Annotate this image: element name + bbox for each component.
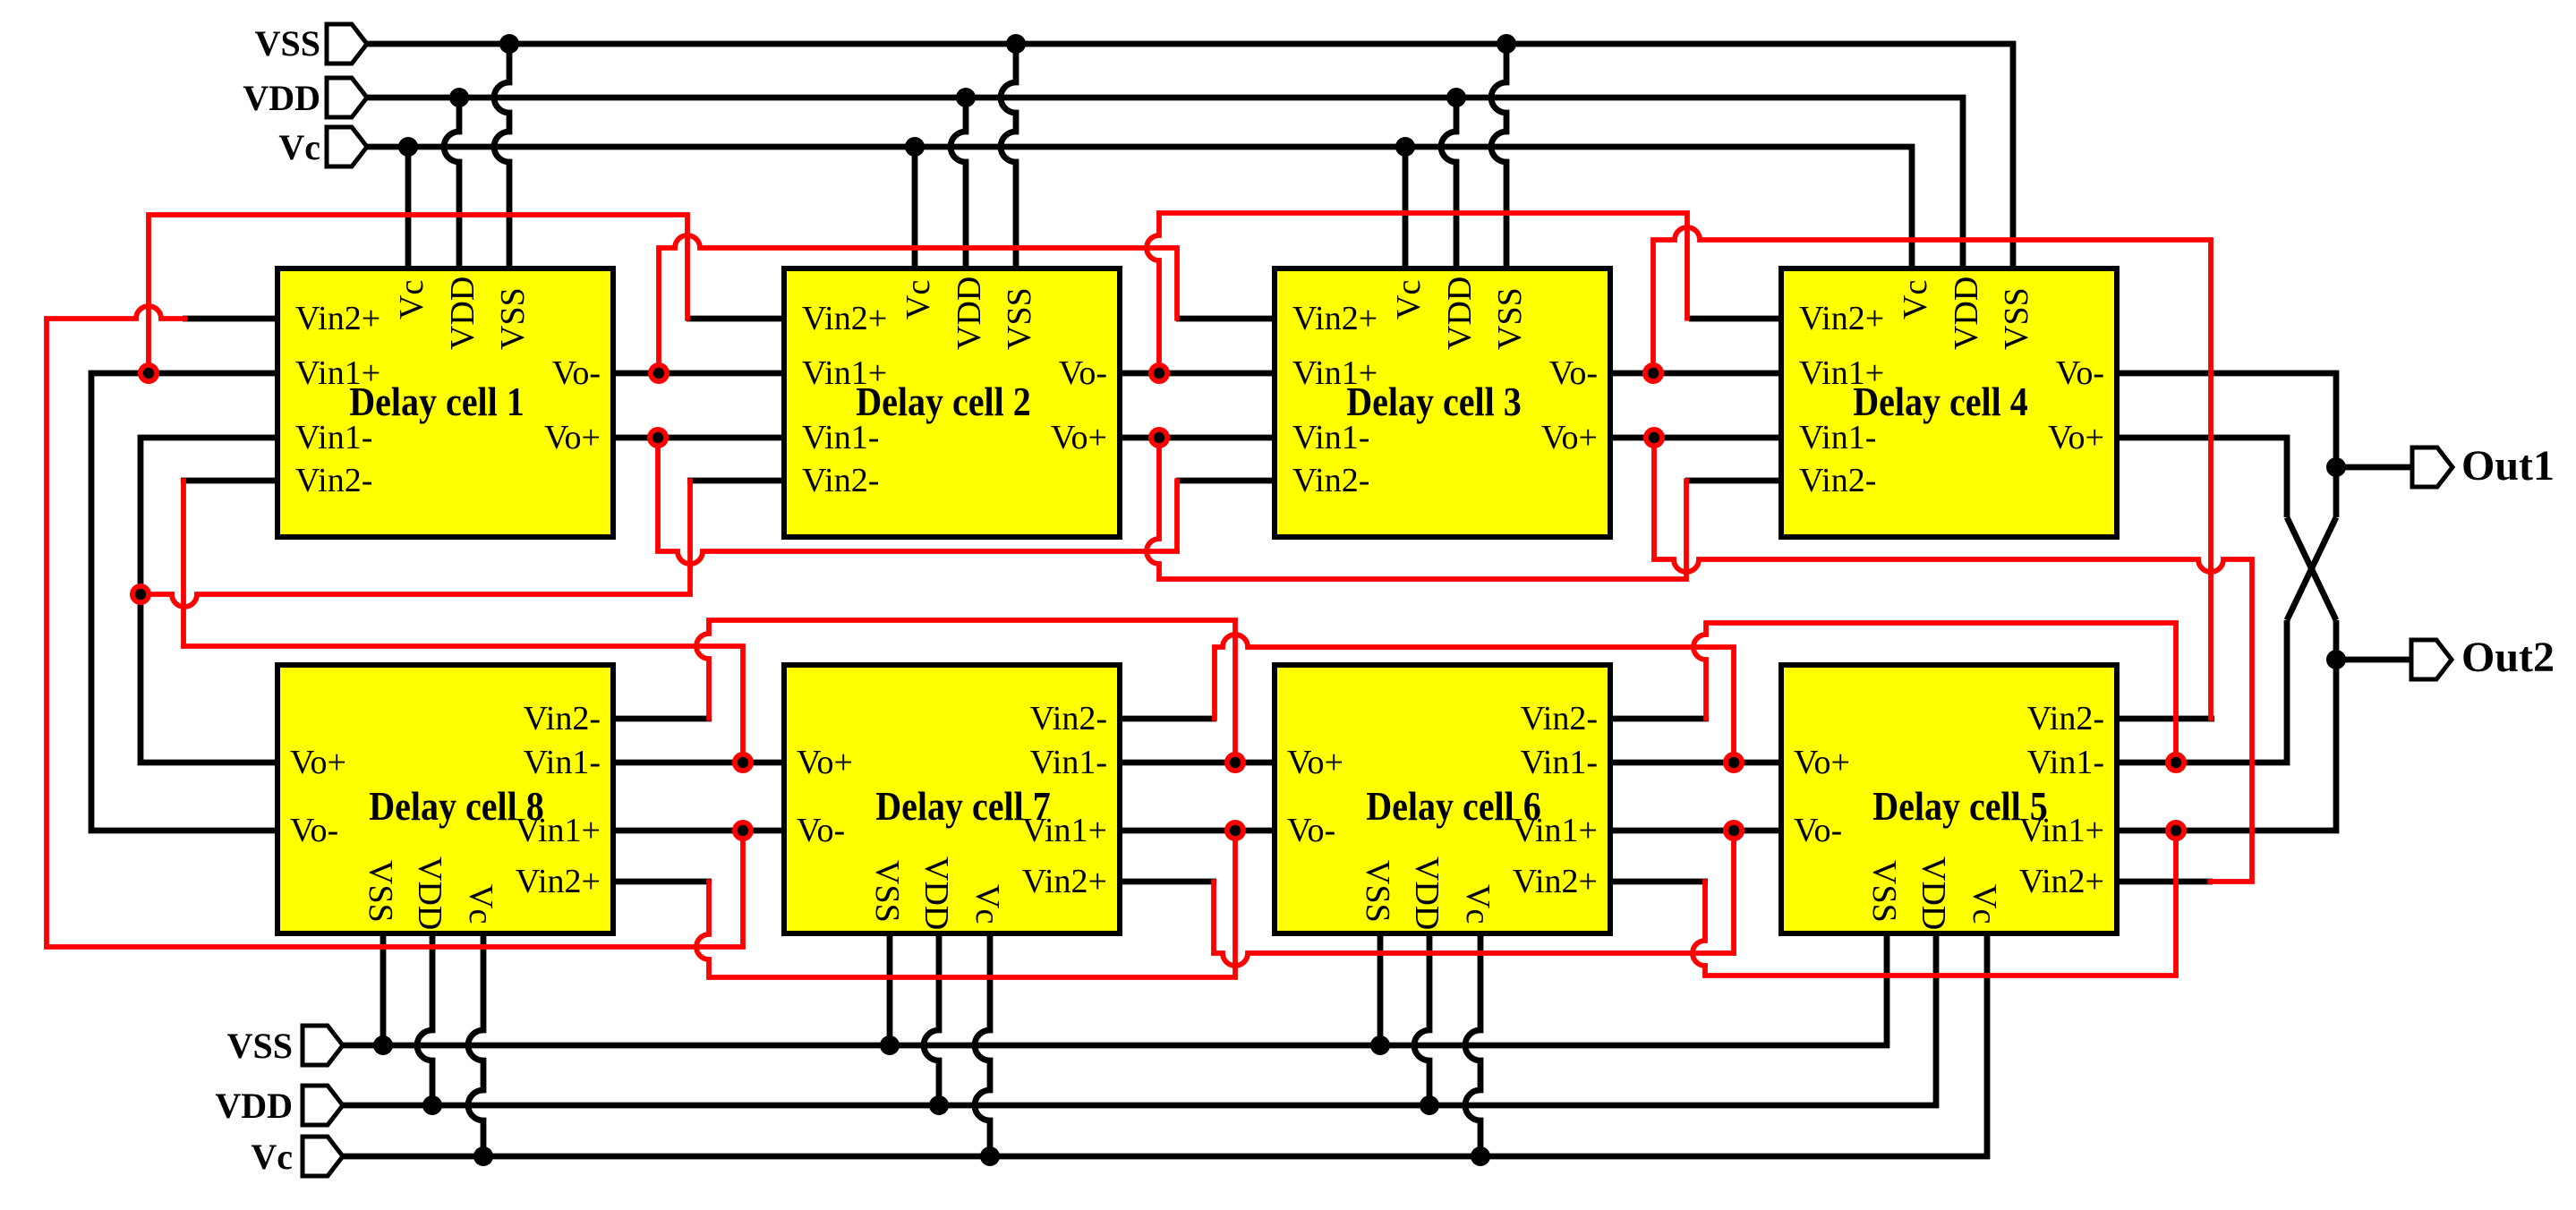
- svg-text:Delay cell 5: Delay cell 5: [1872, 785, 2048, 830]
- svg-text:Vc: Vc: [278, 127, 320, 167]
- stub cell1.Vin2+: [183, 316, 280, 322]
- wire VDD riser from Delay cell 7 + junction: [924, 931, 939, 1108]
- wire VDD drop to Delay cell 2 + junction: [951, 95, 966, 271]
- svg-text:Vo+: Vo+: [544, 419, 601, 456]
- svg-text:Vo-: Vo-: [2056, 354, 2104, 392]
- delay cell U3 (Delay cell 3): [1275, 268, 1610, 537]
- svg-text:VSS: VSS: [868, 860, 906, 923]
- red wire cell6.Vo+ net to cell8.Vin2-: [696, 618, 709, 720]
- node red junction cell5.Vo+: [1723, 752, 1744, 773]
- svg-text:VDD: VDD: [1441, 277, 1479, 350]
- wire cell7.Vo+ to cell8.Vin1-: [610, 760, 787, 766]
- svg-text:Vc: Vc: [251, 1137, 293, 1177]
- node red junction on cell8.Vin1+ line: [732, 820, 754, 841]
- svg-text:Vin1-: Vin1-: [524, 744, 601, 781]
- wire VDD drop to Delay cell 3 + junction: [1441, 95, 1456, 271]
- svg-text:Out2: Out2: [2461, 634, 2555, 681]
- node red junction cell6.Vo+: [1224, 752, 1246, 773]
- wire Vc riser from Delay cell 5: [1984, 931, 1991, 1159]
- stub cell3.Vin2+: [1176, 316, 1277, 322]
- wire VSS drop to Delay cell 3 + junction: [1491, 41, 1506, 271]
- stub cell1.Vin2-: [181, 478, 280, 484]
- svg-text:Vo+: Vo+: [1051, 419, 1107, 456]
- svg-text:Vo+: Vo+: [1287, 744, 1343, 781]
- node red junction on cell5.Vin1- line: [2165, 752, 2187, 773]
- svg-text:VSS: VSS: [1001, 287, 1038, 350]
- wire cell5.Vo+ to cell6.Vin1-: [1608, 760, 1784, 766]
- wire cell1.Vo+ to cell2.Vin1-: [610, 435, 787, 441]
- wire VSS riser from Delay cell 8 + junction: [380, 931, 387, 1048]
- svg-text:Vc: Vc: [462, 884, 499, 924]
- svg-text:VSS: VSS: [362, 860, 399, 923]
- svg-text:Delay cell 6: Delay cell 6: [1366, 785, 1541, 830]
- stub cell3.Vin2-: [1176, 478, 1277, 484]
- wire VSS drop to Delay cell 1 + junction: [494, 41, 509, 271]
- svg-text:VDD: VDD: [1408, 856, 1446, 930]
- svg-text:VDD: VDD: [951, 277, 988, 350]
- wire cell4.Vo+ to X-cross upper: [2117, 438, 2287, 517]
- wire cell6.Vo- to cell7.Vin1+: [1117, 828, 1277, 834]
- power rail VDD (top): [363, 95, 1966, 101]
- svg-text:Vin1-: Vin1-: [1030, 744, 1107, 781]
- wire Vc drop to Delay cell 4: [1909, 144, 1915, 271]
- svg-text:Delay cell 7: Delay cell 7: [875, 785, 1051, 830]
- svg-text:Vo+: Vo+: [290, 744, 346, 781]
- svg-text:VDD: VDD: [444, 277, 482, 350]
- power rail VSS (bottom): [340, 1043, 1889, 1049]
- svg-text:Vo-: Vo-: [1287, 812, 1335, 849]
- port VDD (bottom-left): [303, 1086, 343, 1125]
- node red junction on cell1.Vin1+ line: [138, 362, 159, 384]
- red wire cell6.Vo- net to cell8.Vin2+: [696, 879, 709, 979]
- svg-text:VDD: VDD: [243, 78, 320, 118]
- svg-text:Vo+: Vo+: [797, 744, 853, 781]
- wire cell8.Vo+ to cell1.Vin1-: [141, 438, 277, 763]
- svg-text:Vc: Vc: [968, 884, 1006, 924]
- node red junction on cell5.Vin1+ line: [2165, 820, 2187, 841]
- port Out2: [2411, 640, 2452, 679]
- svg-text:Vin2+: Vin2+: [295, 300, 380, 337]
- svg-text:Vo+: Vo+: [1541, 419, 1598, 456]
- wire cell3.Vo- to cell4.Vin1+: [1608, 371, 1784, 377]
- svg-text:Vo+: Vo+: [2048, 419, 2104, 456]
- wire Vc riser from Delay cell 8 + junction: [468, 931, 483, 1159]
- delay cell U7 (Delay cell 7): [784, 665, 1120, 933]
- red wire cell5.Vin1- net to cell6.Vin2-: [1693, 620, 1706, 720]
- delay cell U5 (Delay cell 5): [1781, 665, 2117, 933]
- svg-text:Vo-: Vo-: [797, 812, 845, 849]
- wire cell6.Vo+ to cell7.Vin1-: [1117, 760, 1277, 766]
- wire X-cross to cell5.Vin1-: [2117, 620, 2287, 763]
- wire cell4.Vo- to Out1 / X-cross upper: [2117, 373, 2336, 517]
- svg-text:Vin2-: Vin2-: [524, 700, 601, 737]
- node red junction cell1.Vo-: [648, 362, 670, 384]
- svg-text:Vo-: Vo-: [290, 812, 338, 849]
- wire VDD drop to Delay cell 1 + junction: [444, 95, 459, 271]
- node red junction on cell8.Vin1- line: [732, 752, 754, 773]
- svg-text:Vc: Vc: [393, 280, 431, 320]
- wire cell8.Vo- to cell1.Vin1+: [91, 373, 277, 831]
- svg-text:Delay cell 2: Delay cell 2: [856, 380, 1031, 425]
- svg-text:Vc: Vc: [1897, 280, 1934, 320]
- svg-text:Delay cell 3: Delay cell 3: [1346, 380, 1522, 425]
- svg-text:Vo-: Vo-: [1059, 354, 1107, 392]
- node red junction cell6.Vo-: [1224, 820, 1246, 841]
- wire X-cross to Out2 and cell5.Vin1+: [2117, 620, 2336, 831]
- svg-text:VDD: VDD: [411, 856, 448, 930]
- svg-text:Vin2-: Vin2-: [1521, 700, 1598, 737]
- port Vc (bottom-left): [303, 1137, 343, 1176]
- power rail VSS (top): [363, 41, 2016, 47]
- svg-text:Vin2+: Vin2+: [1513, 863, 1598, 900]
- wire Vc drop to Delay cell 1 + junction: [405, 144, 412, 271]
- port VDD (top-left): [327, 78, 367, 117]
- svg-text:VDD: VDD: [1915, 856, 1952, 930]
- svg-text:VDD: VDD: [1948, 277, 1985, 350]
- svg-text:VSS: VSS: [227, 1026, 293, 1066]
- wire Vc drop to Delay cell 3 + junction: [1403, 144, 1409, 271]
- wire VSS drop to Delay cell 4: [2010, 41, 2017, 271]
- red wire cell5.Vin1+ net to cell6.Vin2+: [1693, 879, 1705, 977]
- node red junction cell5.Vo-: [1723, 820, 1744, 841]
- red wire cell1.Vo- to cell3.Vin2+: [656, 245, 661, 375]
- red wire cell5.Vo- net to cell7.Vin2+: [1211, 879, 1216, 955]
- power rail VDD (bottom): [340, 1103, 1939, 1109]
- delay cell U2 (Delay cell 2): [784, 268, 1120, 537]
- svg-text:Vin2+: Vin2+: [1022, 863, 1107, 900]
- svg-text:Vc: Vc: [900, 280, 937, 320]
- stub cell7.Vin2+: [1117, 879, 1216, 885]
- stub cell5.Vin2-: [2113, 716, 2214, 722]
- svg-text:VSS: VSS: [494, 287, 532, 350]
- svg-text:Out1: Out1: [2461, 442, 2555, 490]
- port VSS (top-left): [327, 24, 367, 64]
- red wire cell1.Vin1- net to cell2.Vin2-: [687, 478, 693, 596]
- wire VSS drop to Delay cell 2 + junction: [1001, 41, 1016, 271]
- svg-text:VDD: VDD: [917, 856, 955, 930]
- svg-text:Vin2-: Vin2-: [295, 462, 372, 499]
- svg-text:Vin2+: Vin2+: [2019, 863, 2104, 900]
- stub cell4.Vin2-: [1685, 478, 1784, 484]
- port Vc (top-left): [327, 127, 367, 166]
- stub cell6.Vin2+: [1608, 879, 1708, 885]
- node red junction cell1.Vo+: [647, 427, 669, 448]
- power rail Vc (top): [363, 144, 1915, 150]
- node red junction cell2.Vo-: [1148, 362, 1170, 384]
- delay cell U1 (Delay cell 1): [277, 268, 613, 537]
- red wire cell1.Vo+ to cell3.Vin2-: [655, 435, 661, 553]
- red wire cell1.Vin1+ net to cell2.Vin2+: [146, 212, 151, 375]
- wire cell1.Vo- to cell2.Vin1+: [610, 371, 787, 377]
- port Out1: [2412, 447, 2452, 487]
- wire Out2 stub: [2333, 657, 2414, 663]
- svg-text:VSS: VSS: [1359, 860, 1396, 923]
- delay cell U8 (Delay cell 8): [277, 665, 613, 933]
- wire VDD drop to Delay cell 4: [1960, 95, 1966, 271]
- delay cell U4 (Delay cell 4): [1781, 268, 2117, 537]
- svg-text:Vin2-: Vin2-: [802, 462, 879, 499]
- red wire cell7.Vo- to cell1.Vin2+ (left loop): [44, 306, 187, 319]
- wire Vc riser from Delay cell 7 + junction: [975, 931, 990, 1159]
- node red junction on cell1.Vin1- vertical: [130, 584, 151, 605]
- svg-text:VSS: VSS: [255, 23, 320, 64]
- wire cell2.Vo+ to cell3.Vin1-: [1117, 435, 1277, 441]
- node red junction cell3.Vo-: [1642, 362, 1664, 384]
- red wire cell7.Vo+ to cell1.Vin2-: [181, 478, 186, 648]
- stub cell8.Vin2+: [610, 879, 712, 885]
- wire cell2.Vo- to cell3.Vin1+: [1117, 371, 1277, 377]
- stub cell4.Vin2+: [1689, 316, 1784, 322]
- node Out2 junction: [2326, 650, 2346, 669]
- red wire cell3.Vo+ to cell5.Vin2+: [1651, 435, 1657, 561]
- wire VSS riser from Delay cell 7 + junction: [887, 931, 893, 1048]
- wire cell7.Vo- to cell8.Vin1+: [610, 828, 787, 834]
- svg-text:Vo-: Vo-: [1549, 354, 1598, 392]
- red wire cell5.Vo+ net to cell7.Vin2-: [1212, 644, 1217, 720]
- svg-text:Delay cell 8: Delay cell 8: [369, 785, 544, 830]
- svg-text:Vin2+: Vin2+: [1799, 300, 1884, 337]
- svg-text:Vin2-: Vin2-: [2027, 700, 2104, 737]
- red wire cell2.Vo- to cell4.Vin2+: [1147, 210, 1159, 375]
- stub cell8.Vin2-: [610, 716, 712, 722]
- stub cell5.Vin2+: [2113, 879, 2213, 885]
- power rail Vc (bottom): [340, 1154, 1990, 1160]
- red wire cell3.Vo- to cell5.Vin2-: [1651, 237, 1656, 375]
- svg-text:Vin2+: Vin2+: [1292, 300, 1378, 337]
- stub cell2.Vin2+: [687, 316, 787, 322]
- svg-text:Vin2-: Vin2-: [1030, 700, 1107, 737]
- wire Vc riser from Delay cell 6 + junction: [1465, 931, 1480, 1159]
- port VSS (bottom-left): [303, 1026, 343, 1065]
- wire VDD riser from Delay cell 5: [1933, 931, 1940, 1108]
- svg-text:VSS: VSS: [1491, 287, 1529, 350]
- delay cell U6 (Delay cell 6): [1275, 665, 1610, 933]
- wire Vc drop to Delay cell 2 + junction: [912, 144, 918, 271]
- wire VDD riser from Delay cell 8 + junction: [417, 931, 432, 1108]
- wire X-cross diagonal B: [2287, 517, 2336, 620]
- wire X-cross diagonal A: [2287, 517, 2336, 620]
- svg-text:VSS: VSS: [1998, 287, 2035, 350]
- svg-text:Vo-: Vo-: [1794, 812, 1842, 849]
- node red junction cell3.Vo+: [1643, 427, 1665, 448]
- svg-text:Vin2-: Vin2-: [1799, 462, 1876, 499]
- wire cell5.Vo- to cell6.Vin1+: [1608, 828, 1784, 834]
- wire VDD riser from Delay cell 6 + junction: [1414, 931, 1429, 1108]
- stub cell6.Vin2-: [1608, 716, 1709, 722]
- wire Out1 stub: [2333, 464, 2415, 471]
- svg-text:Vin1-: Vin1-: [2027, 744, 2104, 781]
- node Out1 junction: [2326, 457, 2346, 477]
- svg-text:Vin1-: Vin1-: [1521, 744, 1598, 781]
- svg-text:Vc: Vc: [1390, 280, 1428, 320]
- svg-text:Vc: Vc: [1966, 884, 2003, 924]
- svg-text:VSS: VSS: [1865, 860, 1903, 923]
- svg-text:Vin2+: Vin2+: [802, 300, 887, 337]
- stub cell2.Vin2-: [687, 478, 787, 484]
- wire VSS riser from Delay cell 6 + junction: [1378, 931, 1384, 1048]
- svg-text:Delay cell 4: Delay cell 4: [1853, 380, 2028, 425]
- svg-text:Vin2-: Vin2-: [1292, 462, 1369, 499]
- svg-text:Vo-: Vo-: [552, 354, 601, 392]
- svg-text:Delay cell 1: Delay cell 1: [349, 380, 525, 425]
- svg-text:VDD: VDD: [215, 1086, 293, 1126]
- svg-text:Vo+: Vo+: [1794, 744, 1850, 781]
- svg-text:Vin2+: Vin2+: [516, 863, 601, 900]
- wire VSS riser from Delay cell 5: [1884, 931, 1890, 1048]
- stub cell7.Vin2-: [1117, 716, 1216, 722]
- svg-text:Vc: Vc: [1459, 884, 1497, 924]
- node red junction cell2.Vo+: [1148, 427, 1170, 448]
- wire cell3.Vo+ to cell4.Vin1-: [1608, 435, 1784, 441]
- red wire cell2.Vo+ to cell4.Vin2-: [1147, 435, 1159, 581]
